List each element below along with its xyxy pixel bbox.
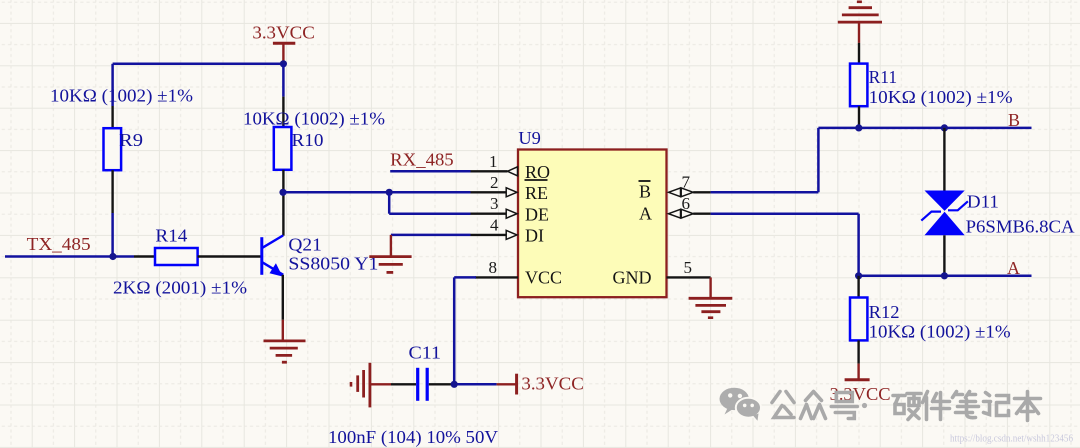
svg-text:1: 1 [489, 152, 498, 171]
wire D11 down to A line [943, 235, 945, 275]
power port 3.3VCC (top) [252, 23, 314, 64]
IC U9 (RS-485 transceiver) [518, 128, 667, 297]
svg-text:100nF (104) 10% 50V: 100nF (104) 10% 50V [328, 427, 498, 448]
ground earth (left of C11) [351, 363, 391, 408]
ground (Q21 emitter) [264, 320, 306, 362]
wire R14 to Q21 base [198, 255, 261, 257]
node junction R12/A [855, 272, 862, 279]
svg-text:GND: GND [613, 268, 652, 288]
svg-text:10KΩ (1002) ±1%: 10KΩ (1002) ±1% [50, 86, 193, 107]
node junction R11/B [855, 124, 862, 131]
net label A [1007, 258, 1020, 278]
wire TX_485 row [5, 255, 155, 258]
svg-text:2KΩ (2001) ±1%: 2KΩ (2001) ±1% [113, 278, 247, 299]
watermark text 公众号·硬件笔记本 [772, 392, 1041, 421]
pin 1 RO [489, 152, 550, 182]
svg-text:Q21: Q21 [288, 235, 322, 255]
wire pin7 to B line [711, 128, 819, 192]
svg-text:D11: D11 [967, 192, 999, 212]
pin 5 GND [613, 258, 711, 288]
node junction RE/DE [386, 189, 393, 196]
svg-text:A: A [639, 204, 652, 224]
resistor R14 [113, 226, 247, 299]
node junction D11/B [941, 124, 948, 131]
svg-text:5: 5 [684, 258, 693, 277]
watermark url text [950, 433, 1073, 445]
wire VCC pin8 to C11 [454, 277, 476, 384]
svg-text:DI: DI [525, 226, 544, 246]
wire RE-DE vertical [388, 192, 391, 213]
wire B line down to D11 [943, 128, 945, 191]
wire A line [859, 275, 1032, 278]
wire ground to R11 top [858, 43, 860, 64]
pin 3 DE [490, 194, 549, 224]
net label TX_485 [27, 234, 91, 254]
net label B [1008, 110, 1020, 130]
wire C11 right plate to junction [429, 383, 497, 385]
svg-text:RE: RE [525, 183, 548, 203]
net label RX_485 [390, 149, 454, 169]
svg-text:4: 4 [490, 215, 499, 234]
wire RE row (collector junction to pin2) [283, 191, 506, 194]
wire B line [818, 127, 1031, 130]
wire vertical down to R9 top [111, 64, 114, 128]
wire pin6 to A line [711, 214, 859, 276]
pin 7 B (overline) [639, 172, 711, 201]
svg-text:8: 8 [489, 258, 498, 277]
resistor R11 [850, 64, 1013, 108]
svg-text:https://blog.csdn.net/wshh1234: https://blog.csdn.net/wshh123456 [950, 433, 1073, 445]
wire DE row to pin3 [389, 212, 506, 215]
power port 3.3VCC (below R12) [830, 364, 891, 404]
svg-text:3.3VCC: 3.3VCC [521, 374, 583, 394]
svg-text:TX_485: TX_485 [27, 234, 91, 254]
pin 6 A [639, 194, 711, 224]
svg-text:2: 2 [490, 173, 499, 192]
svg-text:U9: U9 [518, 128, 541, 148]
wire vertical 3.3VCC down to R10 top [282, 64, 285, 127]
wire R12 bottom down [857, 340, 859, 363]
resistor R9 [50, 86, 193, 171]
svg-text:C11: C11 [409, 343, 442, 363]
svg-text:SS8050 Y1: SS8050 Y1 [288, 254, 378, 274]
svg-text:3: 3 [490, 194, 499, 213]
node junction D11/A [941, 272, 948, 279]
node junction VCC/C11 [451, 381, 458, 388]
capacitor C11 [328, 343, 498, 448]
svg-text:10KΩ (1002) ±1%: 10KΩ (1002) ±1% [869, 87, 1013, 108]
pin 8 VCC [475, 258, 562, 288]
svg-text:R9: R9 [119, 130, 143, 150]
node junction at 3.3VCC [280, 60, 287, 67]
svg-text:DE: DE [525, 204, 549, 224]
resistor R12 [850, 298, 1011, 343]
svg-text:R12: R12 [869, 302, 900, 322]
wire top horizontal from R9 to 3.3VCC junction [113, 63, 284, 66]
ground (DI pin) [369, 235, 411, 273]
TVS diode D11 [921, 191, 1074, 237]
svg-text:B: B [639, 181, 651, 201]
svg-text:RX_485: RX_485 [390, 149, 454, 169]
wire C11 left plate to earth [391, 383, 416, 385]
wire Q21 emitter down [282, 275, 284, 320]
resistor R10 [243, 109, 385, 170]
pin 4 DI [490, 215, 544, 245]
node junction TX/R9 [109, 253, 116, 260]
wire A line down to R12 [857, 276, 859, 298]
svg-text:R11: R11 [869, 67, 898, 87]
svg-text:P6SMB6.8CA: P6SMB6.8CA [966, 217, 1075, 237]
transistor Q21 [262, 235, 379, 277]
svg-text:3.3VCC: 3.3VCC [252, 23, 314, 43]
svg-text:10KΩ (1002) ±1%: 10KΩ (1002) ±1% [869, 322, 1011, 343]
wire R10 bottom to collector / RE junction [282, 170, 284, 236]
svg-text:VCC: VCC [525, 268, 562, 288]
wire R9 bottom to TX_485 row [111, 170, 113, 256]
wire DI row to pin4 [391, 234, 506, 237]
svg-text:R10: R10 [292, 130, 324, 150]
ground (U9 GND pin5) [689, 277, 733, 317]
svg-text:10KΩ (1002) ±1%: 10KΩ (1002) ±1% [243, 109, 385, 130]
svg-text:RO: RO [525, 162, 550, 182]
svg-text:R14: R14 [155, 226, 187, 246]
wire R11 bottom to B line [858, 106, 860, 128]
ground (inverted, above R11) [838, 2, 882, 43]
power port 3.3VCC (right of C11) [497, 374, 584, 395]
node junction collector/RE [279, 189, 286, 196]
wire RX_485 to pin1 [390, 170, 507, 173]
watermark wechat icon [720, 388, 762, 421]
pin 2 RE (active low, overline) [490, 173, 548, 203]
